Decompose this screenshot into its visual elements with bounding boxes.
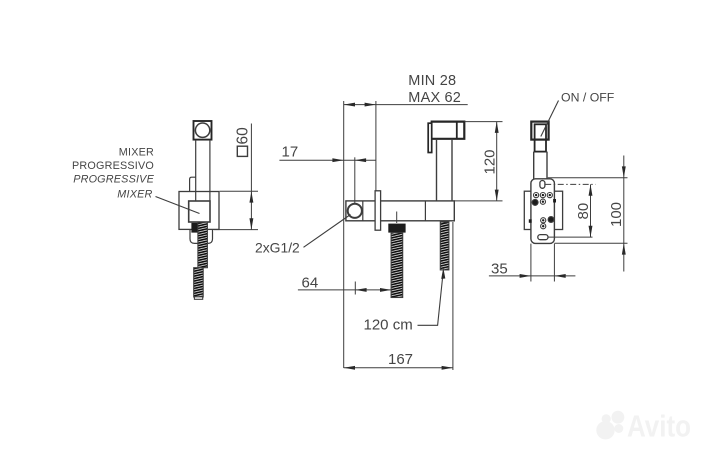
hose nut (black) xyxy=(191,223,199,233)
ON/OFF leader xyxy=(541,101,559,137)
svg-text:PROGRESSIVE: PROGRESSIVE xyxy=(73,174,154,186)
sprayer head, middle view xyxy=(431,122,465,139)
leader 120cm xyxy=(418,274,444,326)
holder tab xyxy=(190,177,196,191)
dim 17 dim line xyxy=(279,159,376,161)
hose end cap xyxy=(194,297,202,300)
wall line L1 xyxy=(343,101,345,368)
square symbol of square60 xyxy=(237,146,247,156)
svg-text:167: 167 xyxy=(388,351,413,368)
top slot xyxy=(540,181,545,189)
screw holes xyxy=(532,193,554,229)
sprayer head front: outer xyxy=(531,122,548,140)
min/max dimension line xyxy=(344,104,468,106)
leader line mixer label xyxy=(156,197,200,214)
Avito watermark xyxy=(596,409,691,444)
wall escutcheon plate, side view xyxy=(375,191,381,230)
holder plate front xyxy=(531,179,555,244)
dim 64: dim line xyxy=(298,289,391,291)
arm divider right xyxy=(424,201,426,221)
dim 64: extension tick xyxy=(354,282,356,295)
dim 120: extension lines xyxy=(464,121,502,123)
svg-text:60: 60 xyxy=(235,127,252,145)
svg-text:MIXER: MIXER xyxy=(119,147,154,159)
svg-text:120 cm: 120 cm xyxy=(364,317,413,334)
svg-text:MIN 28: MIN 28 xyxy=(408,73,456,89)
svg-text:MIXER: MIXER xyxy=(117,188,152,200)
dim 35: dim line + outside arrows xyxy=(489,275,576,277)
shaft front xyxy=(533,152,535,179)
svg-text:64: 64 xyxy=(302,275,319,292)
side lugs xyxy=(529,219,532,223)
svg-text:17: 17 xyxy=(282,144,299,161)
mixer block xyxy=(189,201,210,222)
hose 1 coil xyxy=(391,233,403,298)
dim 100: extension lines xyxy=(548,177,628,179)
svg-text:100: 100 xyxy=(608,202,625,227)
svg-text:Avito: Avito xyxy=(627,409,691,444)
svg-text:2xG1/2: 2xG1/2 xyxy=(255,240,300,256)
dimension square60: arrows xyxy=(249,191,253,202)
wall bracket outer plate xyxy=(179,192,219,230)
bottom slot line xyxy=(548,236,592,238)
progressive mixer rod xyxy=(354,157,356,203)
svg-text:MAX 62: MAX 62 xyxy=(408,90,461,106)
sprayer shaft, middle view xyxy=(436,139,438,201)
leader 2xG1/2 xyxy=(304,215,351,248)
dim 167: dim line xyxy=(344,367,453,369)
sprayer nozzle xyxy=(428,123,432,152)
dimension square60: dim line xyxy=(250,124,252,230)
dim 35: extension lines xyxy=(530,244,532,282)
extension line L2 xyxy=(375,101,377,191)
svg-text:120: 120 xyxy=(481,149,498,174)
dim 80: dim line xyxy=(590,184,592,237)
arm divider left xyxy=(362,201,364,221)
round control handle xyxy=(348,204,362,218)
svg-text:80: 80 xyxy=(575,203,592,220)
dim 167: right extension xyxy=(452,222,454,370)
horizontal arm body xyxy=(346,201,454,221)
bracket lower lobe xyxy=(190,229,213,243)
sprayer head front: inner/neck xyxy=(535,124,546,151)
hose coil upper xyxy=(198,222,208,268)
svg-text:ON / OFF: ON / OFF xyxy=(561,91,615,105)
svg-text:PROGRESSIVO: PROGRESSIVO xyxy=(72,160,154,172)
shower head (square with circle), left view xyxy=(194,121,212,140)
dim 17 lines xyxy=(279,159,376,161)
handle shaft, left view xyxy=(195,140,197,201)
bottom slot xyxy=(538,235,548,240)
dim 17 arrows xyxy=(332,158,343,162)
dim 120: dim line xyxy=(496,122,498,201)
svg-text:35: 35 xyxy=(491,261,508,278)
hose 1 center tick xyxy=(396,212,398,224)
hose 2 coil xyxy=(440,222,449,270)
centerline top slot (dash-dot) xyxy=(545,183,595,185)
dimension square60: extension lines xyxy=(220,190,258,192)
in-wall body xyxy=(524,191,562,229)
dim 100: dim line + outside arrows xyxy=(623,156,625,272)
hose 1 nut (black) xyxy=(388,224,405,233)
hose coil lower xyxy=(194,268,204,297)
